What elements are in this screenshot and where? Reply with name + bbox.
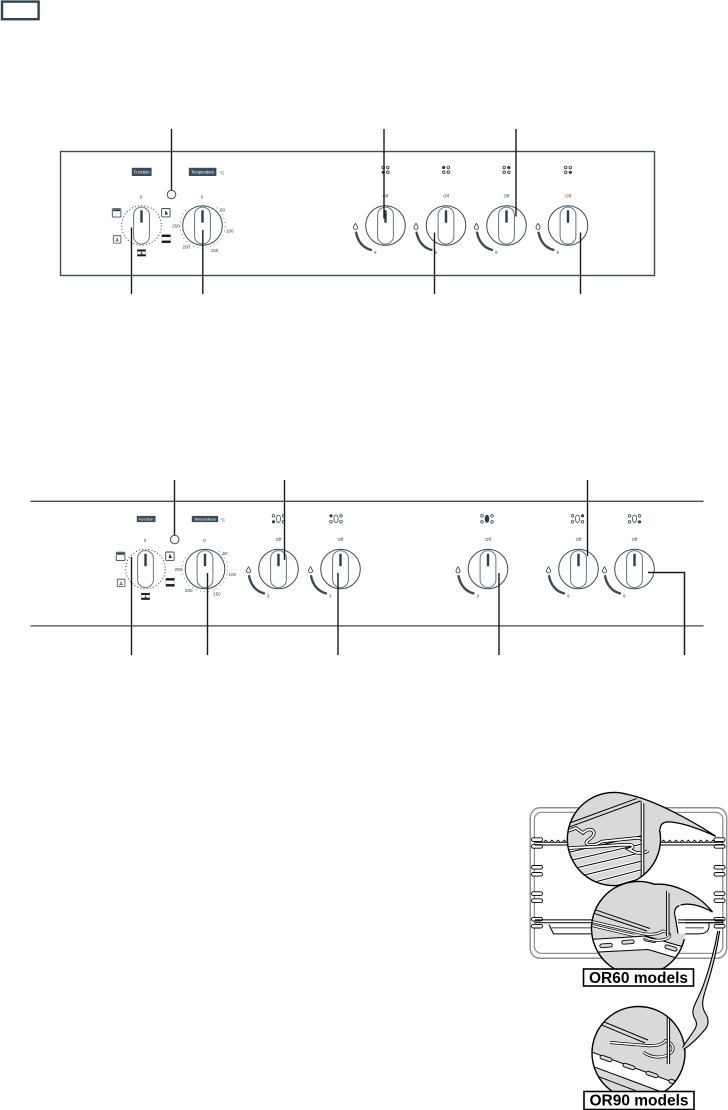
svg-text:OR90 models: OR90 models	[589, 1093, 688, 1110]
svg-text:Off: Off	[632, 537, 638, 542]
hotplate icon panel2 knob2	[329, 514, 342, 523]
svg-text:Off: Off	[485, 537, 491, 542]
hotplate knob panel2 knob2	[309, 537, 361, 599]
Function label panel2	[137, 516, 156, 522]
svg-text:0: 0	[140, 195, 143, 200]
hotplate icon panel2 knob3	[481, 515, 494, 524]
top detail circle interior	[561, 796, 648, 895]
svg-text:9: 9	[267, 594, 270, 599]
OR90 detail circle outline	[592, 1007, 685, 1100]
hotplate icon panel2 knob5	[628, 515, 641, 524]
Temperature label panel2	[192, 516, 225, 523]
hotplate knob panel1 knob4	[536, 193, 588, 255]
temperature knob panel2	[175, 538, 237, 596]
function knob panel1	[112, 195, 170, 257]
bottom rack right stub	[678, 920, 724, 923]
callout line below function knob panel2	[131, 557, 133, 655]
callout line to indicator panel1	[171, 129, 173, 190]
control panel 1 outline	[61, 152, 655, 276]
hotplate knob panel2 knob5	[603, 537, 655, 599]
svg-text:Off: Off	[276, 537, 282, 542]
callout line below hotplate knob4 panel1	[580, 233, 582, 295]
hotplate icon panel1 knob2	[442, 166, 450, 174]
indicator light panel1	[167, 190, 176, 199]
svg-text:0: 0	[144, 538, 147, 543]
svg-text:9: 9	[329, 594, 332, 599]
svg-text:150: 150	[213, 591, 221, 596]
function knob panel2	[116, 538, 174, 600]
callout line to indicator panel2	[174, 480, 176, 535]
grill tray	[549, 923, 709, 934]
hotplate knob panel1 knob2	[414, 193, 466, 255]
svg-text:Function: Function	[134, 169, 150, 174]
svg-text:200: 200	[185, 588, 193, 593]
callout line to hotplate knob1 panel1	[383, 129, 385, 219]
callout line to hotplate knob1 panel2	[284, 480, 286, 560]
svg-text:OR60 models: OR60 models	[589, 970, 688, 987]
svg-text:Off: Off	[504, 193, 510, 198]
hotplate knob panel1 knob1	[354, 193, 406, 255]
svg-text:50: 50	[220, 207, 226, 212]
callout line below hotplate knob2 panel2	[337, 573, 339, 655]
callout elbow from hotplate knob5 panel2	[648, 573, 685, 656]
svg-text:200: 200	[183, 245, 191, 250]
OR90 balloon tail	[683, 931, 720, 1050]
svg-text:9: 9	[567, 594, 570, 599]
svg-text:250: 250	[172, 224, 180, 229]
callout line to hotplate knob3 panel1	[515, 129, 517, 217]
bottom oven rack	[535, 920, 724, 923]
svg-text:250: 250	[175, 567, 183, 572]
svg-text:100: 100	[226, 229, 234, 234]
svg-text:Off: Off	[443, 193, 449, 198]
OR60 detail circle fill	[592, 882, 686, 976]
indicator light panel2	[170, 535, 179, 544]
OR60 detail circle interior	[589, 890, 702, 961]
svg-text:0: 0	[201, 195, 204, 200]
OR90 models label	[584, 1092, 694, 1110]
top detail circle outline	[567, 792, 715, 885]
svg-text:9: 9	[477, 594, 480, 599]
oven side rack tabs	[532, 838, 726, 928]
callout line below temperature knob panel1	[202, 230, 204, 294]
Temperature label panel1	[189, 168, 225, 176]
svg-text:°C: °C	[219, 170, 225, 175]
svg-text:0: 0	[203, 538, 206, 543]
svg-text:Off: Off	[576, 537, 582, 542]
callout line below function knob panel1	[131, 228, 133, 295]
control panel 2 bottom edge	[31, 625, 704, 627]
callout line below temperature knob panel2	[207, 573, 209, 655]
OR90 detail circle fill	[592, 1007, 685, 1100]
hotplate icon panel2 knob1	[272, 515, 285, 524]
svg-text:Temperature: Temperature	[194, 516, 216, 521]
svg-text:150: 150	[211, 248, 219, 253]
hotplate icon panel1 knob1	[382, 166, 390, 174]
hotplate icon panel1 knob4	[564, 166, 572, 174]
svg-text:100: 100	[228, 572, 236, 577]
control panel 2 top edge	[31, 500, 704, 502]
oven cavity inner outline	[534, 812, 722, 953]
callout line below hotplate knob3 panel2	[498, 573, 500, 655]
callout line to hotplate knob4 panel2	[587, 480, 589, 556]
oven cavity outer outline	[530, 808, 727, 959]
OR60 detail circle tail	[655, 884, 713, 912]
svg-text:9: 9	[623, 594, 626, 599]
Function label panel1	[132, 168, 152, 176]
OR60 detail circle outline	[592, 881, 713, 975]
svg-text:Temperature: Temperature	[191, 169, 215, 174]
page corner box	[2, 2, 39, 20]
hotplate knob panel2 knob1	[247, 537, 299, 599]
top detail circle tail	[628, 795, 716, 846]
svg-text:50: 50	[222, 551, 228, 556]
svg-text:°C: °C	[220, 517, 225, 522]
OR90 detail circle interior	[589, 1008, 686, 1103]
hotplate knob panel1 knob3	[475, 193, 527, 255]
callout line below hotplate knob2 panel1	[434, 233, 436, 295]
OR60 models label	[584, 969, 694, 987]
svg-text:Function: Function	[139, 516, 154, 521]
hotplate knob panel2 knob3	[456, 537, 508, 599]
top detail circle fill	[567, 792, 660, 885]
temperature knob panel1	[172, 195, 234, 253]
top oven rack	[535, 840, 724, 845]
svg-text:Off: Off	[565, 193, 571, 198]
hotplate icon panel2 knob4	[571, 514, 584, 523]
hotplate icon panel1 knob3	[503, 166, 510, 174]
svg-text:Off: Off	[338, 537, 344, 542]
hotplate knob panel2 knob4	[547, 537, 599, 599]
